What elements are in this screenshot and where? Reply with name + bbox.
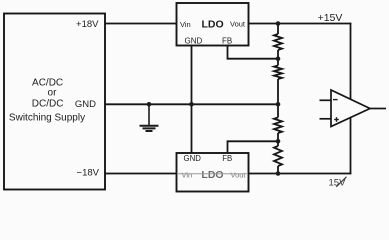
svg-text:Vin: Vin — [180, 20, 191, 29]
svg-text:GND: GND — [184, 154, 202, 163]
svg-text:GND: GND — [185, 36, 203, 45]
svg-text:DC/DC: DC/DC — [32, 98, 64, 109]
svg-text:LDO: LDO — [201, 169, 223, 181]
svg-text:−18V: −18V — [77, 168, 100, 179]
svg-text:Vout: Vout — [231, 170, 247, 179]
svg-text:+15V: +15V — [318, 12, 343, 24]
svg-text:FB: FB — [222, 154, 232, 163]
svg-text:Vout: Vout — [230, 20, 246, 29]
svg-text:FB: FB — [222, 36, 232, 45]
svg-text:or: or — [48, 87, 58, 98]
svg-text:+18V: +18V — [76, 19, 99, 30]
svg-text:Switching Supply: Switching Supply — [9, 112, 85, 123]
svg-text:Vin: Vin — [182, 170, 193, 179]
svg-text:LDO: LDO — [202, 19, 224, 31]
svg-text:GND: GND — [75, 99, 96, 110]
